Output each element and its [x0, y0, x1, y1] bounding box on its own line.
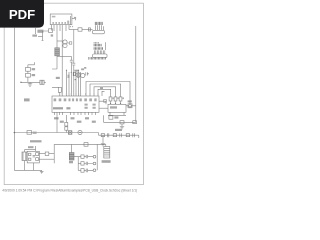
capacitor C4	[72, 60, 75, 97]
IC right pin wire 2	[99, 107, 108, 109]
connector J1 shell	[93, 30, 105, 34]
ladder rail wire	[74, 157, 81, 171]
resistor R6	[109, 116, 113, 119]
ferrite chain wire	[101, 135, 139, 138]
U1 pin 5 wire	[65, 25, 67, 31]
resistor R7	[84, 143, 88, 147]
R3-R5 labels	[112, 97, 124, 99]
row2 wire	[78, 163, 81, 165]
K1 right wire 1	[39, 153, 45, 155]
U1 pin 1 wire	[53, 25, 55, 31]
mid wire to J3	[54, 144, 106, 146]
nested wire to R4	[94, 87, 116, 97]
MCU U3	[52, 96, 99, 112]
U1 pin 4 wire	[61, 25, 63, 96]
round component dot	[79, 132, 80, 133]
node pin dot	[20, 82, 21, 83]
inductor L1	[76, 73, 81, 78]
K1 contact 4	[36, 158, 39, 161]
R6 label	[114, 116, 118, 118]
chain label	[115, 129, 122, 131]
bead B2	[113, 134, 116, 137]
K1 right wire 2	[39, 158, 54, 160]
wire to side transistor	[86, 82, 130, 104]
connector J3	[104, 147, 110, 159]
side component Q3	[128, 104, 132, 108]
C1 label	[32, 68, 35, 70]
left rail wire	[13, 28, 15, 171]
capacitor C5	[120, 121, 124, 124]
capacitor C11	[84, 162, 93, 165]
svg-text:PDF: PDF	[9, 7, 35, 22]
wire R1 to J1	[82, 29, 93, 31]
connector J1 pins	[96, 25, 104, 30]
connector J2 label block	[94, 42, 102, 50]
K1 bottom lead	[33, 163, 35, 171]
U2 inner text	[110, 106, 117, 108]
U1 right pin wire	[72, 18, 76, 20]
K1 contact 3	[36, 153, 39, 156]
net label flag under badge	[35, 28, 37, 34]
small box node	[104, 100, 107, 103]
resistor R3	[109, 97, 112, 101]
wire to C3	[57, 55, 71, 57]
PDF badge	[0, 0, 44, 28]
U1 pin labels	[52, 16, 69, 24]
R8/R9 leads	[65, 115, 67, 133]
regulator VR1 lead	[71, 144, 73, 152]
text row tick	[87, 57, 89, 60]
resistor R12	[58, 87, 61, 92]
VR1 bars	[69, 155, 74, 159]
U1 pin 2 wire	[56, 25, 58, 48]
VR1 label	[69, 161, 73, 163]
L1 core bars	[78, 73, 80, 77]
net label text	[37, 30, 43, 33]
connector J1 label block	[95, 22, 102, 25]
resistor R15	[81, 169, 84, 173]
nested wire to R3	[98, 89, 111, 97]
connector J2 shell	[93, 54, 107, 58]
ferrite bead FB1	[88, 28, 90, 31]
C2 label	[32, 74, 35, 76]
net label flag left	[24, 98, 30, 101]
side comp label	[128, 100, 132, 102]
wire bundle to U3	[67, 70, 81, 96]
connector J2 pins	[94, 50, 105, 54]
wire junction at C4 rail	[73, 30, 75, 60]
resistor R2	[49, 29, 53, 33]
R2 lower mark	[51, 34, 53, 36]
K1 contact 2	[29, 158, 31, 160]
capacitor C7	[107, 133, 109, 137]
K1a bottom lead	[23, 161, 25, 171]
J3 label	[102, 160, 111, 163]
LED DS1	[93, 155, 96, 158]
resistor R1	[78, 28, 82, 31]
ground G3	[120, 124, 124, 129]
row3 wire	[78, 169, 81, 171]
rail branch junction	[14, 132, 16, 134]
IC right pin wire	[99, 101, 106, 104]
X-box cross	[68, 131, 72, 135]
capacitor C6	[133, 121, 137, 124]
lower net wire	[104, 115, 136, 122]
U3 bottom pin ticks	[55, 112, 96, 115]
ground G4	[40, 170, 44, 173]
capacitor C3	[70, 56, 73, 96]
U3 top pin name text	[54, 98, 97, 101]
resistor R5	[119, 97, 122, 101]
net text left	[100, 86, 103, 89]
bottom wire	[14, 169, 41, 171]
K1 contact 1	[29, 153, 31, 155]
U3 top pin numbers	[62, 93, 99, 95]
U3 bottom net labels	[54, 117, 96, 123]
bead B1	[101, 134, 104, 137]
U3 designator text	[53, 107, 70, 109]
wire to transistor pair	[57, 40, 63, 42]
K1a inner bars	[23, 152, 26, 161]
Q pair right stub	[67, 42, 69, 44]
side vertical wire	[53, 144, 55, 163]
R16 right wire	[49, 153, 54, 155]
capacitor C8	[120, 133, 122, 137]
U1 pin number marks	[70, 26, 73, 27]
bead B3	[126, 134, 129, 137]
capacitor C12	[84, 169, 93, 173]
wire node B	[42, 31, 49, 41]
U1 pin 0 wire	[50, 25, 52, 31]
crystal net wire	[21, 81, 40, 83]
net text in bundle	[56, 67, 86, 79]
round component	[78, 130, 82, 134]
crystal cap C2	[26, 73, 31, 77]
transistor Q2	[63, 44, 67, 48]
wire D1 to caps	[52, 56, 57, 69]
capacitor C9	[133, 133, 135, 137]
crystal Y1	[40, 80, 44, 84]
resistor R8	[65, 122, 68, 126]
relay top wire	[24, 146, 35, 152]
diode D1 body	[55, 48, 60, 56]
inductor L2	[81, 73, 85, 77]
crystal cap C1	[26, 68, 31, 72]
relay area label 1	[30, 140, 42, 142]
trunk wire	[56, 112, 58, 132]
optocoupler U2	[108, 104, 126, 112]
J3 hatch	[104, 148, 110, 156]
U1 pin 3 wire	[59, 25, 61, 31]
R12 stub	[52, 87, 60, 96]
net name text row	[90, 57, 105, 60]
regulator VR1	[69, 153, 74, 161]
U1 inner bar	[69, 16, 71, 25]
relay K1 body	[27, 151, 39, 163]
resistor R16	[45, 152, 49, 155]
D2 label	[33, 132, 37, 134]
J2 side wire	[105, 42, 107, 50]
U3 right interior pin labels	[85, 104, 96, 109]
U1 right pin label	[74, 17, 76, 19]
wire below U2	[108, 112, 126, 115]
right power rail	[135, 26, 137, 122]
ground G2	[101, 135, 105, 146]
R3-R5 lower wires	[111, 101, 121, 104]
IC U1	[50, 14, 72, 25]
bundle junction dots	[66, 70, 79, 81]
crystal circuit wires	[28, 62, 35, 82]
relay area label 2	[28, 146, 34, 148]
Q pair right mark	[69, 42, 71, 44]
diode D2	[27, 131, 32, 135]
varistor RV1	[86, 72, 89, 75]
D1 bars	[55, 50, 60, 54]
LED DS3	[93, 169, 96, 172]
wire to J1	[69, 29, 78, 31]
nested wire to R5	[90, 84, 121, 97]
resistor R4	[114, 97, 117, 101]
Q3 circle	[129, 105, 132, 108]
junction dots	[110, 103, 121, 104]
transistor Q1	[63, 40, 67, 44]
resistor R2 value text	[32, 35, 37, 37]
resistor R10	[73, 72, 75, 75]
bus wire lower	[14, 133, 100, 136]
bridge component X-box	[68, 131, 72, 135]
ground	[28, 82, 32, 86]
Q3 wires	[126, 105, 136, 107]
LED DS2	[93, 162, 96, 165]
U1 pin 6 wire	[68, 25, 70, 30]
resistor R14	[81, 162, 84, 165]
pin stub wire	[38, 35, 43, 37]
capacitor C10	[84, 155, 93, 158]
resistor R13	[81, 155, 84, 158]
resistor R9	[65, 127, 68, 130]
K1 coil dash	[33, 156, 35, 157]
relay socket K1a	[22, 152, 27, 161]
LED column wire	[96, 144, 98, 170]
Y1 electrodes	[41, 80, 46, 84]
svg-text:4/9/2009 1:09:54 PM C:\Progra: 4/9/2009 1:09:54 PM C:\Program Files\Alt…	[2, 189, 137, 193]
nested stub wire	[102, 91, 105, 96]
sheet border frame	[4, 3, 143, 184]
